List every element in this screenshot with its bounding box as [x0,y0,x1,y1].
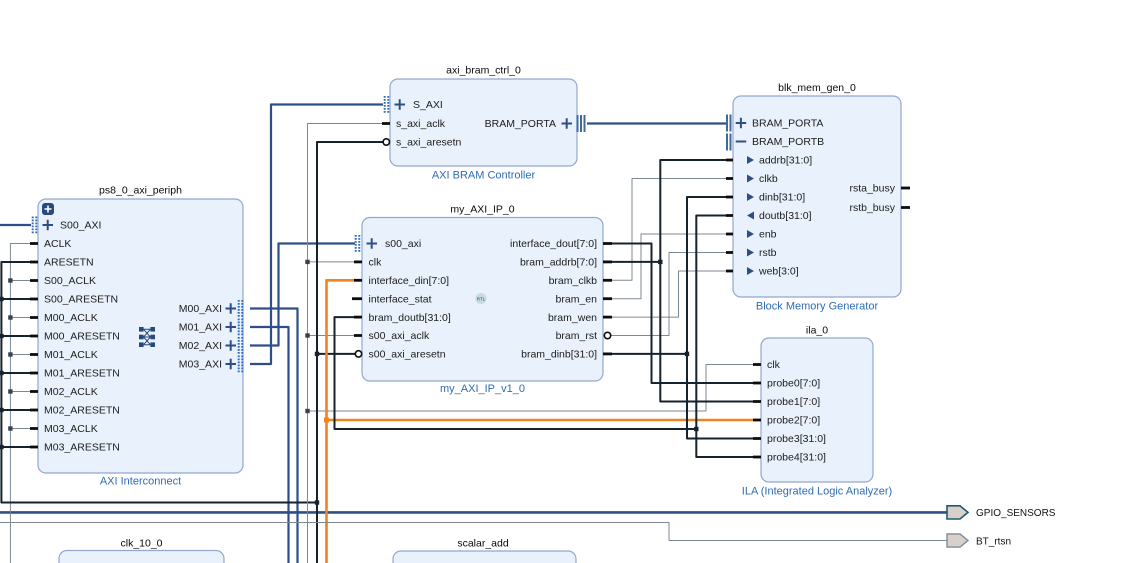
pin M03_ACLK stub [30,427,38,430]
svg-text:S00_ARESETN: S00_ARESETN [44,294,118,306]
pin clkb stub [726,177,733,180]
wire aresetn rail branch M01_ARESETN [1,372,30,374]
wire net bram_rst to rstb [611,253,727,336]
junction aresetn bottom rail [315,500,319,504]
pin clkb triangle [747,175,754,183]
pin BRAM_PORTA bars [578,115,585,132]
wire branch bram_addrb [612,261,660,263]
wire net bram_en to enb [612,234,726,299]
pin M01_ACLK stub [30,353,38,356]
svg-text:probe4[31:0]: probe4[31:0] [767,452,826,464]
block axi_bram_ctrl_0 body [390,79,577,166]
wire net aclk rail of interconnect [10,244,30,563]
wire aclk rail branch M02_ACLK [10,391,30,393]
wire net dinb bram_dinb probe3 [687,197,753,439]
wire net interface_din orange [327,280,355,563]
RTL icon [476,293,487,304]
wire net S00_AXI bus into interconnect [0,224,31,226]
junction doutb bram_doutb [694,427,698,431]
svg-text:s00_axi_aresetn: s00_axi_aresetn [369,349,446,361]
pin bram_doutb stub [354,316,362,319]
wire aresetn branch s00_axi_aresetn [317,353,356,355]
svg-text:Block Memory Generator: Block Memory Generator [756,301,879,313]
svg-text:bram_addrb[7:0]: bram_addrb[7:0] [520,257,597,269]
svg-text:axi_bram_ctrl_0: axi_bram_ctrl_0 [446,65,521,77]
junction aclk rail M01_ACLK [8,352,12,356]
svg-text:S00_ACLK: S00_ACLK [44,275,96,287]
svg-text:GPIO_SENSORS: GPIO_SENSORS [976,508,1056,519]
block blk_mem_gen_0 body [733,96,901,297]
wire net peripheral aresetn rail of interconnect [1,262,317,503]
svg-text:bram_wen: bram_wen [548,312,597,324]
pin enb triangle [747,230,754,238]
wire aresetn rail branch M00_ARESETN [1,335,30,337]
pin M02_AXI connector dots [238,337,240,355]
svg-text:addrb[31:0]: addrb[31:0] [759,155,812,167]
pin probe1 stub [753,400,761,403]
block scalar_add body [393,551,576,563]
svg-text:interface_stat: interface_stat [369,293,432,305]
svg-text:s00_axi: s00_axi [385,238,421,250]
junction aclk rail M00_ACLK [8,315,12,319]
pin M00_AXI plus icon [226,303,237,314]
pin s_axi_aclk stub [382,122,390,125]
wire net M01_AXI going down off-canvas [250,327,289,563]
svg-text:probe2[7:0]: probe2[7:0] [767,415,820,427]
pin probe3 stub [753,437,761,440]
svg-text:scalar_add: scalar_add [457,538,509,550]
junction clock s00_axi_aclk [305,333,309,337]
junction aresetn rail M02_ARESETN [0,408,4,412]
svg-text:AXI Interconnect: AXI Interconnect [100,476,181,488]
wire net bram_wen to web [612,271,726,317]
svg-text:M02_ACLK: M02_ACLK [44,386,98,398]
svg-text:rsta_busy: rsta_busy [849,183,895,195]
wire net bram_clkb to clkb [612,179,726,281]
pin M00_ACLK stub [30,316,38,319]
svg-text:BT_rtsn: BT_rtsn [976,536,1011,547]
wire branch bram_dinb [612,353,687,355]
block clk_10_0 body [59,551,224,563]
svg-text:doutb[31:0]: doutb[31:0] [759,210,812,222]
pin M01_AXI plus icon [226,322,237,333]
svg-text:M01_AXI: M01_AXI [179,322,222,334]
svg-text:S_AXI: S_AXI [413,99,443,111]
pin probe4 stub [753,456,761,459]
pin interface_stat stub [352,297,362,300]
svg-text:M01_ACLK: M01_ACLK [44,349,98,361]
svg-text:interface_dout[7:0]: interface_dout[7:0] [510,238,597,250]
svg-text:M01_ARESETN: M01_ARESETN [44,368,120,380]
svg-text:s_axi_aresetn: s_axi_aresetn [396,137,462,149]
wire net clock distribution vertical [308,124,383,563]
wire clock branch ila clk [308,365,754,412]
pin M02_ARESETN stub [30,409,38,412]
svg-text:M00_ACLK: M00_ACLK [44,312,98,324]
pin web stub [726,270,733,273]
svg-text:my_AXI_IP_v1_0: my_AXI_IP_v1_0 [440,383,525,395]
pin M02_ACLK stub [30,390,38,393]
svg-text:rstb_busy: rstb_busy [849,202,895,214]
pin BRAM_PORTA plus icon [736,118,747,129]
pin M00_AXI connector dots [238,300,240,318]
expand box icon [42,203,54,215]
svg-text:rstb: rstb [759,247,777,259]
wire net aresetn distribution vertical [317,142,383,563]
wire net M02_AXI to my_AXI_IP s00_axi [250,244,355,346]
junction aresetn s00_axi_aresetn [315,352,319,356]
junction aclk rail M03_ACLK [8,426,12,430]
pin probe2 stub [753,419,761,422]
pin rstb stub [726,251,733,254]
pin bram_addrb stub [603,260,612,263]
wire net interface_dout to probe0 [612,244,753,384]
port BT_rtsn symbol [947,534,968,547]
pin clk stub [753,363,761,366]
pin S00_ACLK stub [30,279,38,282]
junction aclk rail S00_ACLK [8,278,12,282]
wire branch bram_doutb [335,317,697,429]
pin bram_rst invert circle [604,332,610,338]
svg-text:clk: clk [767,359,781,371]
svg-text:probe3[31:0]: probe3[31:0] [767,433,826,445]
wire aclk rail branch M01_ACLK [10,354,30,356]
svg-text:web[3:0]: web[3:0] [758,266,799,278]
svg-text:M02_ARESETN: M02_ARESETN [44,405,120,417]
pin bram_clkb stub [603,279,612,282]
pin s00_axi_aclk stub [354,334,362,337]
junction aresetn rail M01_ARESETN [0,371,4,375]
svg-text:bram_clkb: bram_clkb [549,275,598,287]
pin S00_AXI connector dots [32,217,34,235]
pin s00_axi connector dots [355,235,357,253]
pin rsta_busy stub [901,187,910,190]
pin M01_ARESETN stub [30,372,38,375]
wire net bram_addrb addrb probe1 [660,160,753,402]
pin web triangle [747,267,754,275]
pin interface_din stub [354,279,362,282]
svg-text:interface_din[7:0]: interface_din[7:0] [369,275,450,287]
svg-text:M00_AXI: M00_AXI [179,303,222,315]
pin M03_AXI plus icon [226,359,237,370]
svg-text:bram_en: bram_en [556,293,598,305]
svg-text:clkb: clkb [759,173,778,185]
wire clock branch my_AXI clk [308,261,355,263]
junction clock ila clk [305,409,309,413]
svg-text:M03_AXI: M03_AXI [179,359,222,371]
svg-text:probe1[7:0]: probe1[7:0] [767,396,820,408]
pin doutb triangle out [747,212,754,220]
svg-text:bram_rst: bram_rst [556,330,598,342]
svg-text:M02_AXI: M02_AXI [179,340,222,352]
wire aclk rail branch S00_ACLK [10,280,30,282]
wire net GPIO_SENSORS [0,511,947,514]
pin BRAM_PORTB bars left [727,134,731,151]
svg-text:ILA (Integrated Logic Analyzer: ILA (Integrated Logic Analyzer) [742,486,892,498]
pin S_AXI plus icon [395,99,406,110]
junction aclk rail M02_ACLK [8,389,12,393]
svg-text:dinb[31:0]: dinb[31:0] [759,192,805,204]
junction clock my_AXI clk [305,260,309,264]
pin BRAM_PORTA plus icon [562,118,573,129]
svg-text:blk_mem_gen_0: blk_mem_gen_0 [778,82,856,94]
pin M03_ARESETN stub [30,446,38,449]
svg-text:s00_axi_aclk: s00_axi_aclk [369,330,430,342]
pin M02_AXI plus icon [226,340,237,351]
pin addrb stub [726,159,733,162]
pin bram_dinb stub [603,352,612,355]
junction orange probe2 [324,418,329,423]
pin bram_en stub [603,297,612,300]
wire net BT_rtsn [0,523,947,541]
svg-text:ps8_0_axi_periph: ps8_0_axi_periph [99,185,182,197]
wire aresetn rail branch M03_ARESETN [1,446,30,448]
wire net M00_AXI going down off-canvas [250,309,298,563]
svg-text:M03_ARESETN: M03_ARESETN [44,442,120,454]
svg-text:RTL: RTL [477,296,486,301]
pin S00_ARESETN stub [30,298,38,301]
pin bram_wen stub [603,316,612,319]
svg-text:S00_AXI: S00_AXI [60,220,101,232]
pin s00_axi plus icon [367,238,378,249]
svg-text:M03_ACLK: M03_ACLK [44,423,98,435]
junction aresetn rail M00_ARESETN [0,334,4,338]
svg-text:clk: clk [369,257,383,269]
pin enb stub [726,233,733,236]
wire net M03_AXI to axi_bram_ctrl S_AXI [250,105,383,365]
pin ACLK stub [30,242,38,245]
svg-text:BRAM_PORTA: BRAM_PORTA [485,118,556,130]
wire aresetn rail branch S00_ARESETN [1,298,30,300]
wire aclk rail branch M00_ACLK [10,317,30,319]
pin doutb stub [726,214,733,217]
wire aclk rail branch M03_ACLK [10,428,30,430]
pin ARESETN stub [30,261,38,264]
crossbar icon [139,327,155,347]
svg-text:bram_dinb[31:0]: bram_dinb[31:0] [521,349,597,361]
junction aresetn rail S00_ARESETN [0,297,4,301]
svg-text:ARESETN: ARESETN [44,257,94,269]
svg-text:BRAM_PORTA: BRAM_PORTA [752,118,823,130]
pin rstb triangle [747,249,754,257]
pin interface_dout stub [603,242,612,245]
svg-text:BRAM_PORTB: BRAM_PORTB [752,136,824,148]
wire net doutb bram_doutb probe4 [696,216,753,458]
wire clock branch s00_axi_aclk [308,335,355,337]
pin probe0 stub [753,382,761,385]
port GPIO_SENSORS symbol [947,506,968,519]
pin M00_ARESETN stub [30,335,38,338]
junction aresetn rail M03_ARESETN [0,445,4,449]
pin M01_AXI connector dots [238,319,240,337]
svg-text:ACLK: ACLK [44,238,71,250]
pin BRAM_PORTB minus icon [736,141,747,143]
svg-text:enb: enb [759,229,777,241]
svg-text:ila_0: ila_0 [806,325,828,337]
junction dinb bram_dinb [685,352,689,356]
junction addrb bram_addrb [658,260,662,264]
pin s00_axi_aresetn invert circle [355,351,361,357]
pin dinb triangle [747,193,754,201]
wire orange branch probe2 [327,419,754,422]
svg-text:probe0[7:0]: probe0[7:0] [767,378,820,390]
block ila_0 body [761,338,873,482]
svg-text:M00_ARESETN: M00_ARESETN [44,331,120,343]
wire aresetn rail branch M02_ARESETN [1,409,30,411]
pin dinb stub [726,196,733,199]
svg-text:bram_doutb[31:0]: bram_doutb[31:0] [369,312,451,324]
svg-text:s_axi_aclk: s_axi_aclk [396,118,446,130]
pin s_axi_aresetn invert circle [383,139,389,145]
svg-text:AXI BRAM Controller: AXI BRAM Controller [432,170,536,182]
wire net BRAM_PORTA bus [587,122,726,124]
svg-text:my_AXI_IP_0: my_AXI_IP_0 [450,204,514,216]
svg-text:clk_10_0: clk_10_0 [120,538,162,550]
pin clk stub [354,260,362,263]
block my_AXI_IP_0 body [362,218,603,382]
pin rstb_busy stub [901,206,910,209]
pin S_AXI interface connector dots [384,96,386,114]
pin S00_AXI plus icon [43,220,54,231]
block ps8_0_axi_periph body [38,199,243,473]
pin M03_AXI connector dots [238,356,240,374]
pin BRAM_PORTA bars left [727,115,731,132]
pin addrb triangle [747,156,754,164]
